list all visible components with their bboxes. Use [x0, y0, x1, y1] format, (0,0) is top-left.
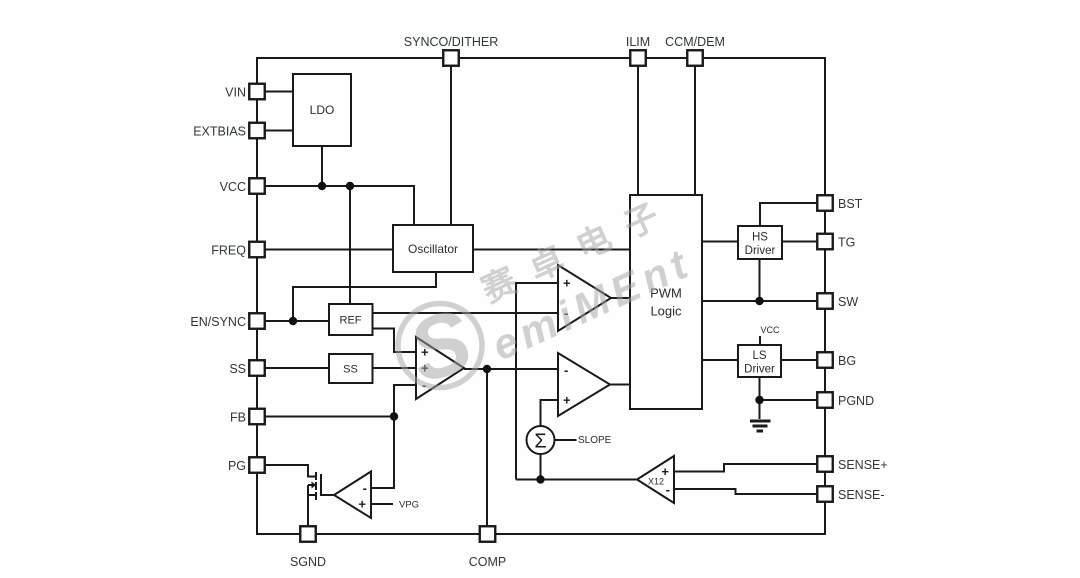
pin FB — [249, 409, 265, 425]
wire SENSE- to X12 minus — [674, 489, 817, 494]
pin EN/SYNC — [249, 313, 265, 329]
wire REF output to top comparator minus — [373, 312, 559, 314]
wire ILIM to PWM top — [637, 66, 639, 195]
svg-text:BG: BG — [838, 354, 856, 368]
wire slope signal up to top comparator plus — [516, 283, 558, 480]
pin squares — [249, 50, 833, 542]
pin VCC — [249, 178, 265, 194]
watermark latin text — [485, 238, 699, 369]
block SS — [329, 354, 373, 383]
wire ground stem — [759, 400, 761, 419]
svg-text:LS: LS — [752, 350, 766, 362]
svg-text:Σ: Σ — [534, 431, 546, 453]
svg-text:VPG: VPG — [399, 500, 419, 511]
pin SS — [249, 360, 265, 376]
svg-text:-: - — [666, 482, 670, 497]
wire COMP node down to COMP pin — [486, 369, 488, 526]
svg-text:Oscillator: Oscillator — [408, 242, 458, 256]
wire HS driver top to BST — [760, 203, 817, 226]
pin CCM/DEM — [687, 50, 703, 66]
wire CCM/DEM to PWM top — [694, 66, 696, 195]
block Oscillator — [393, 225, 473, 272]
wire VCC tick to LS driver — [759, 336, 761, 345]
block labels — [310, 103, 458, 376]
wire PWM to SW — [702, 300, 817, 302]
svg-text:EN/SYNC: EN/SYNC — [190, 315, 246, 329]
svg-text:VCC: VCC — [220, 180, 246, 194]
wire HS driver to TG — [782, 241, 817, 243]
svg-text:VCC: VCC — [760, 325, 780, 335]
ground symbol — [750, 421, 771, 431]
pin SYNCO/DITHER — [443, 50, 459, 66]
wire HS driver bottom to SW line — [759, 259, 761, 301]
svg-text:PG: PG — [228, 459, 246, 473]
plus minus signs — [358, 276, 670, 512]
wire REF output to error amp plus — [373, 329, 417, 353]
svg-text:Logic: Logic — [650, 304, 682, 319]
op-amp PG comparator — [334, 472, 371, 519]
svg-text:+: + — [358, 497, 366, 512]
pin BST — [817, 195, 833, 211]
block HS Driver — [738, 226, 782, 259]
junction dots — [289, 182, 764, 484]
wire bottom comparator output to PWM — [610, 384, 630, 386]
svg-text:SYNCO/DITHER: SYNCO/DITHER — [404, 35, 498, 49]
wire error amp output to bottom comparator minus — [464, 368, 558, 370]
blocks — [293, 74, 782, 409]
pin ILIM — [630, 50, 646, 66]
transistor PG mosfet — [308, 472, 321, 500]
svg-text:SS: SS — [229, 362, 246, 376]
wire LS driver bottom to PGND — [760, 377, 818, 400]
pin TG — [817, 234, 833, 250]
block LS Driver — [738, 345, 781, 377]
node slope junction — [536, 475, 544, 483]
svg-text:LDO: LDO — [310, 103, 335, 117]
wire PWM to HS driver — [702, 241, 738, 243]
IC border — [257, 58, 825, 534]
wire FREQ to oscillator — [265, 249, 393, 251]
svg-text:FREQ: FREQ — [211, 244, 246, 258]
pin VIN — [249, 84, 265, 100]
pin SGND — [300, 526, 316, 542]
wire PG comparator plus to VPG — [371, 503, 393, 505]
wire SS pin to SS block — [265, 367, 329, 369]
wire LDO bottom to VCC rail — [321, 146, 323, 186]
svg-text:SW: SW — [838, 295, 858, 309]
svg-text:SENSE-: SENSE- — [838, 488, 885, 502]
block REF — [329, 304, 373, 335]
svg-text:SS: SS — [343, 364, 358, 376]
wire FB node up to error amp minus — [394, 385, 416, 417]
pin FREQ — [249, 242, 265, 258]
pin EXTBIAS — [249, 123, 265, 139]
watermark chinese text — [476, 189, 682, 310]
svg-text:Driver: Driver — [745, 245, 776, 257]
svg-text:X12: X12 — [648, 477, 664, 487]
svg-text:-: - — [363, 481, 367, 496]
svg-text:SGND: SGND — [290, 555, 326, 569]
wire VCC rail to oscillator top — [265, 186, 414, 225]
node VCC-REF junction — [346, 182, 354, 190]
pin PG — [249, 457, 265, 473]
node LDO-VCC junction — [318, 182, 326, 190]
svg-text:FB: FB — [230, 411, 246, 425]
svg-text:BST: BST — [838, 197, 863, 211]
svg-text:+: + — [563, 393, 571, 408]
wire oscillator to PWM logic — [473, 249, 630, 251]
wire top comparator output to PWM — [611, 297, 630, 299]
svg-text:VIN: VIN — [225, 86, 246, 100]
svg-text:Driver: Driver — [744, 364, 775, 376]
wire LS driver to BG — [781, 359, 817, 361]
node COMP junction — [483, 365, 491, 373]
wire PWM to LS driver — [702, 359, 738, 361]
wire VIN to LDO — [265, 91, 293, 93]
block LDO — [293, 74, 351, 146]
pin BG — [817, 352, 833, 368]
wire SS block to error amp plus — [373, 367, 417, 369]
wire oscillator bottom to EN/SYNC node — [293, 272, 436, 321]
wire EXTBIAS to LDO — [265, 130, 293, 132]
svg-text:CCM/DEM: CCM/DEM — [665, 35, 725, 49]
op-amp error amplifier — [416, 337, 464, 399]
op-amp X12 sense amplifier — [637, 456, 674, 503]
op-amps — [334, 265, 674, 518]
svg-text:REF: REF — [340, 315, 362, 327]
wire sigma top to bottom comparator plus — [541, 400, 559, 426]
wire sigma output to SLOPE label — [555, 439, 577, 441]
watermark logo S — [397, 289, 483, 401]
svg-text:PGND: PGND — [838, 394, 874, 408]
wire FB node down to PG comparator minus — [371, 417, 394, 489]
wire PG pin to mosfet drain — [265, 465, 316, 477]
node FB junction — [390, 412, 398, 420]
pin PGND — [817, 392, 833, 408]
pin SENSE- — [817, 486, 833, 502]
svg-text:TG: TG — [838, 236, 855, 250]
node PGND junction — [755, 396, 763, 404]
svg-text:EXTBIAS: EXTBIAS — [193, 125, 246, 139]
op-amp top PWM comparator — [558, 265, 611, 331]
block PWM Logic — [630, 195, 702, 409]
wire EN/SYNC to REF — [265, 320, 329, 322]
wire SYNCO/DITHER to oscillator top — [450, 66, 452, 225]
wire X12 output to slope node — [516, 479, 637, 481]
node SW junction — [755, 297, 763, 305]
wire FB to node — [265, 416, 394, 418]
pin COMP — [480, 526, 496, 542]
svg-text:ILIM: ILIM — [626, 35, 650, 49]
pin SW — [817, 293, 833, 309]
summing node sigma circle — [527, 426, 555, 454]
wire sigma bottom to X12 line — [540, 454, 542, 480]
node EN/SYNC junction — [289, 317, 297, 325]
svg-text:HS: HS — [752, 232, 768, 244]
wire mosfet source to SGND — [308, 485, 316, 526]
svg-text:-: - — [564, 363, 568, 378]
wire VCC branch down to REF top — [349, 186, 351, 304]
op-amp bottom PWM comparator — [558, 353, 610, 416]
svg-text:SENSE+: SENSE+ — [838, 458, 888, 472]
svg-text:SLOPE: SLOPE — [578, 435, 612, 446]
pin SENSE+ — [817, 456, 833, 472]
small labels — [399, 325, 780, 511]
wire SENSE+ to X12 plus — [674, 464, 817, 472]
svg-text:COMP: COMP — [469, 555, 507, 569]
wire mosfet gate to PG comparator output — [321, 494, 334, 496]
